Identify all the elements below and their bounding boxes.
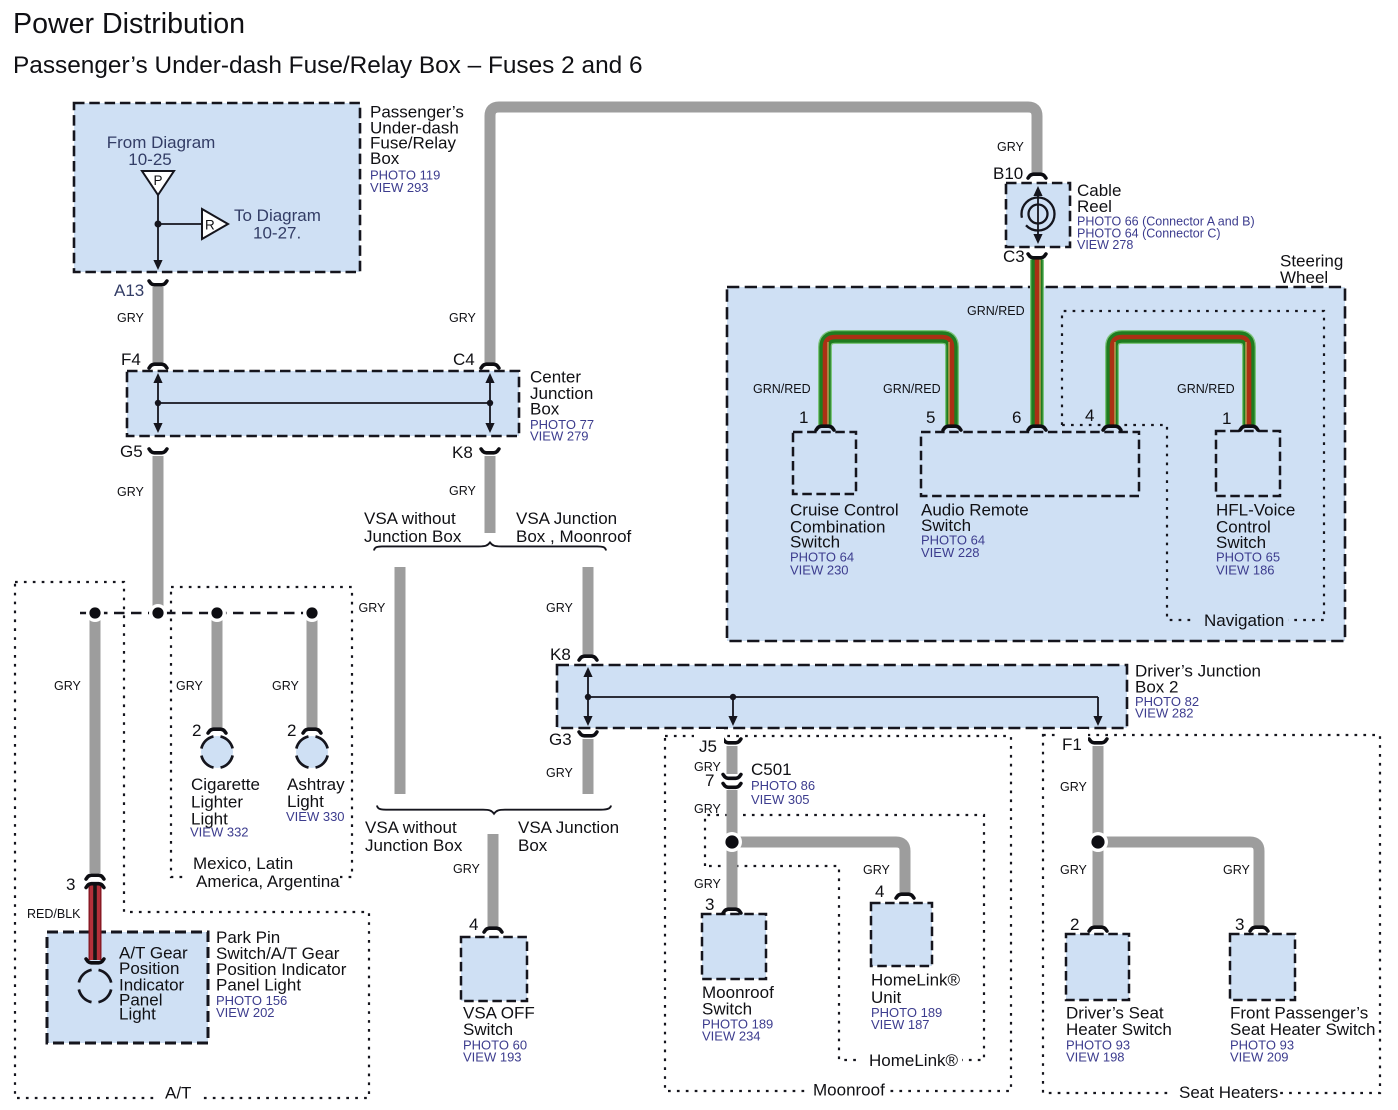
label GRY ashtray wire [272,679,300,693]
wire C3 to pin6 (GRN/RED) [1037,260,1040,426]
svg-text:Cigarette: Cigarette [191,775,260,794]
fuse box internal line and arrow [153,195,202,270]
svg-text:4: 4 [875,882,884,901]
svg-text:Heater Switch: Heater Switch [1066,1020,1172,1039]
svg-text:Box , Moonroof: Box , Moonroof [516,527,632,546]
svg-text:VIEW 293: VIEW 293 [370,180,429,195]
label C501 [751,760,815,807]
connector pin4 VSA OFF [484,928,502,932]
label VSA junction box moonroof (upper) [516,509,632,546]
label GRY passenger seat wire [1223,863,1251,877]
svg-text:3: 3 [66,875,75,894]
label GRY C4 wire [449,311,477,325]
svg-text:2: 2 [287,721,296,740]
moonroof region [665,736,1011,1091]
label VSA OFF switch [463,1004,535,1065]
svg-text:HomeLink®: HomeLink® [871,971,961,990]
label park pin switch/AT gear position indicator panel light [216,928,347,1020]
pin 6 audio [1012,408,1021,427]
svg-text:Junction Box: Junction Box [365,836,463,855]
label GRY K8 wire [449,484,477,498]
connector K8 at DJB2 [579,656,597,660]
triangle P from diagram 10-25 [142,171,174,195]
svg-text:RED/BLK: RED/BLK [27,907,81,921]
label C4 [453,350,475,369]
label GRY J5 wire [694,760,722,774]
svg-text:To Diagram: To Diagram [234,206,321,225]
svg-text:5: 5 [926,408,935,427]
svg-text:7: 7 [705,771,714,790]
svg-text:VSA Junction: VSA Junction [518,818,619,837]
connector pin6 audio [1028,426,1046,430]
svg-text:4: 4 [1085,406,1094,425]
svg-text:VSA Junction: VSA Junction [516,509,617,528]
wire A13 to F4 (GRY) [153,287,164,363]
svg-text:VIEW 230: VIEW 230 [790,563,849,578]
label homelink unit [871,971,961,1033]
svg-text:B10: B10 [993,164,1023,183]
pin 2 ashtray [287,721,296,740]
svg-text:K8: K8 [452,443,473,462]
navigation region [1062,311,1324,620]
label K8 below CJB [452,443,473,462]
svg-text:GRY: GRY [176,679,204,693]
label GRY B10 wire [997,140,1025,154]
svg-text:Power Distribution: Power Distribution [13,8,245,40]
svg-text:GRY: GRY [449,484,477,498]
svg-text:3: 3 [705,895,714,914]
svg-text:HomeLink®: HomeLink® [869,1051,959,1070]
connector 3 inline A/T pair [86,875,104,887]
label GRY left alt wire [359,601,387,615]
svg-text:10-27.: 10-27. [253,224,301,243]
svg-text:VIEW 330: VIEW 330 [286,809,345,824]
connector J5 [723,739,741,743]
connector pin5 audio [943,426,961,430]
connector F1 [1089,739,1107,743]
svg-text:GRY: GRY [694,802,722,816]
svg-text:VIEW 278: VIEW 278 [1077,238,1133,252]
svg-text:G5: G5 [120,442,143,461]
svg-text:3: 3 [1235,915,1244,934]
pin 4 audio [1085,406,1094,425]
label homelink region [862,1050,962,1070]
svg-text:GRN/RED: GRN/RED [1177,382,1235,396]
svg-text:2: 2 [1070,915,1079,934]
svg-text:Light: Light [119,1005,156,1024]
svg-text:10-25: 10-25 [128,150,171,169]
svg-text:Seat Heater Switch: Seat Heater Switch [1230,1020,1376,1039]
label VSA junction box (lower) [518,818,619,855]
label GRN/RED left [753,382,811,396]
svg-text:GRN/RED: GRN/RED [967,304,1025,318]
pin 3 moonroof [705,895,714,914]
svg-text:GRN/RED: GRN/RED [883,382,941,396]
svg-text:Box: Box [370,149,400,168]
label F4 [121,350,141,369]
connector K8 below CJB [481,449,499,453]
svg-text:1: 1 [799,408,808,427]
label G3 [549,730,572,749]
label front passenger's seat heater switch [1230,1004,1376,1065]
label GRY moonroof wire [694,877,722,891]
junction dot moonroof branch [722,832,742,852]
svg-text:F1: F1 [1062,735,1082,754]
mexico latin america argentina region [171,587,352,877]
front passenger's seat heater switch box [1230,934,1295,1000]
svg-text:VIEW 305: VIEW 305 [751,792,810,807]
label moonroof region [806,1081,886,1102]
label A13 [114,281,144,300]
connector G3 [579,732,597,736]
svg-text:J5: J5 [699,737,717,756]
VSA OFF switch box [461,937,527,1001]
label VSA without junction box (upper) [364,509,462,546]
svg-text:VIEW 187: VIEW 187 [871,1017,930,1032]
subtitle [13,52,643,79]
homelink unit box [871,903,932,966]
svg-text:4: 4 [469,915,478,934]
svg-text:Navigation: Navigation [1204,611,1284,630]
label from diagram 10-25 [107,133,216,169]
wire C501 to moonroof switch with homelink branch (GRY) [732,790,905,908]
svg-text:VIEW 234: VIEW 234 [702,1029,761,1044]
svg-text:GRY: GRY [863,863,891,877]
moonroof switch box [702,914,766,979]
connector pin3 moonroof switch [723,909,741,913]
pin 7 C501 [705,771,714,790]
connector pin2 ashtray [303,729,321,733]
svg-text:C4: C4 [453,350,475,369]
svg-text:VIEW 186: VIEW 186 [1216,563,1275,578]
wire pin4 to pin1 HFL (GRN/RED) [1112,337,1249,425]
HFL-voice control switch box [1216,431,1280,496]
pin 3 A/T inline [66,875,75,894]
svg-text:VIEW 202: VIEW 202 [216,1005,275,1020]
wire pin1 to pin5 cruise/audio (GRN/RED) [825,337,952,425]
junction dots on dashed row [86,604,321,622]
wire VSA-without branch (GRY) [395,567,406,794]
triangle R to diagram 10-27 [202,209,228,239]
wire to VSA OFF switch (GRY) [488,834,499,927]
label B10 [993,164,1023,183]
connector pin4 audio [1103,426,1121,430]
wire to cigarette lighter light (GRY) [212,617,223,728]
connector pin2 cigarette [208,729,226,733]
label F1 [1057,729,1088,754]
label to diagram 10-27 [234,206,321,243]
label cigarette lighter light [190,775,260,840]
ashtray light circle [296,736,328,768]
svg-text:GRY: GRY [546,601,574,615]
svg-text:1: 1 [1222,409,1231,428]
label GRY homelink wire [863,863,891,877]
label GRY F1 wire [1060,780,1088,794]
title [13,8,245,40]
passenger under-dash fuse/relay box [74,103,360,272]
wire G3 down (GRY) [583,739,594,794]
label driver's seat heater switch [1066,1004,1172,1065]
seat heaters region [1043,735,1380,1093]
connector G5 [149,449,167,453]
label steering wheel [1280,252,1343,288]
svg-text:G3: G3 [549,730,572,749]
wire VSA junction branch to K8 (GRY) [583,567,594,655]
svg-text:VIEW 282: VIEW 282 [1135,706,1194,721]
label GRN/RED mid [883,382,941,396]
brace VSA alternatives lower [377,806,611,814]
svg-text:America, Argentina: America, Argentina [196,872,340,891]
svg-text:Box: Box [530,400,560,419]
A/T region outline [15,582,369,1098]
label mexico latin america argentina [186,854,340,891]
label cable reel [1077,181,1255,252]
label GRY G5 wire [117,485,145,499]
svg-text:GRY: GRY [449,311,477,325]
label GRY A/T wire [54,679,82,693]
connector pin2 driver seat heater [1089,927,1107,931]
label GRY cigarette wire [176,679,204,693]
svg-text:Wheel: Wheel [1280,268,1328,287]
svg-text:GRY: GRY [453,862,481,876]
label GRY A13 wire [117,311,145,325]
A/T gear position indicator panel light box [47,932,208,1043]
label audio remote switch [921,500,1029,560]
svg-text:Box: Box [518,836,548,855]
svg-text:VIEW 228: VIEW 228 [921,545,980,560]
svg-text:VIEW 193: VIEW 193 [463,1050,522,1065]
connector C4 [481,364,499,368]
svg-text:Moonroof: Moonroof [813,1081,885,1100]
connector B10 [1028,174,1046,178]
label GRY below C501 [694,802,722,816]
pin 5 audio [926,408,935,427]
pin 2 cigarette [192,721,201,740]
svg-text:C3: C3 [1003,247,1025,266]
DJB2 internal arrows [583,667,1102,726]
connector pin1 cruise [816,426,834,430]
svg-text:VSA without: VSA without [364,509,456,528]
pin 4 VSA OFF [469,915,478,934]
label GRY G3 wire [546,766,574,780]
svg-text:Mexico, Latin: Mexico, Latin [193,854,293,873]
svg-text:GRY: GRY [546,766,574,780]
label A/T region [155,1084,201,1106]
connector C3 [1028,254,1046,258]
svg-text:VSA without: VSA without [365,818,457,837]
svg-text:GRY: GRY [272,679,300,693]
svg-text:VIEW 332: VIEW 332 [190,825,249,840]
svg-text:K8: K8 [550,645,571,664]
svg-text:P: P [153,173,162,188]
connector pin1 HFL [1240,426,1258,430]
connector pin4 homelink [896,894,914,898]
steering wheel box [727,287,1345,641]
brace VSA alternatives upper [374,542,606,550]
svg-text:GRY: GRY [359,601,387,615]
center junction box [127,371,519,436]
svg-text:VIEW 198: VIEW 198 [1066,1050,1125,1065]
junction dashed line at A/T row [80,612,312,614]
wire RED/BLK to A/T panel light [89,884,102,960]
label driver's junction box 2 [1135,662,1261,721]
label center junction box [530,368,594,444]
cruise control combination switch box [793,432,856,494]
junction dot seat heater branch [1088,832,1108,852]
wire junction line to A/T (GRY) [90,617,101,873]
wire J5 to C501 (GRY) [727,746,738,774]
label seat heaters region [1172,1083,1278,1103]
svg-text:VIEW 279: VIEW 279 [530,429,589,444]
svg-text:2: 2 [192,721,201,740]
label VSA without junction box (lower) [365,818,463,855]
svg-text:GRY: GRY [997,140,1025,154]
svg-text:Reel: Reel [1077,197,1112,216]
svg-text:GRY: GRY [1223,863,1251,877]
svg-text:GRY: GRY [117,485,145,499]
wire F1 to seat heater switches (GRY) [1098,746,1259,926]
label HFL-voice control switch [1216,501,1295,578]
label moonroof switch [702,983,774,1044]
label passenger's under-dash fuse/relay box [370,103,464,196]
label navigation [1196,608,1288,630]
cable reel box [1006,183,1070,247]
label K8 at DJB2 [550,645,571,664]
svg-text:GRY: GRY [117,311,145,325]
pin 3 passenger seat [1235,915,1244,934]
label G5 [120,442,143,461]
label ashtray light [286,775,345,824]
label RED/BLK [27,907,81,921]
driver's seat heater switch box [1066,934,1129,1000]
pin 1 cruise [799,408,808,427]
svg-text:Panel Light: Panel Light [216,976,301,995]
CJB internal arrows [153,373,494,433]
svg-text:A13: A13 [114,281,144,300]
label GRY right alt wire [546,601,574,615]
label A/T gear position indicator panel light (inside box) [119,944,188,1024]
connector pin3 passenger seat heater [1250,927,1268,931]
svg-text:A/T: A/T [165,1084,191,1103]
pin 4 homelink [875,882,884,901]
label C3 [1003,247,1025,266]
connector C501 inline pair [723,775,741,788]
svg-text:GRY: GRY [1060,780,1088,794]
svg-text:GRN/RED: GRN/RED [753,382,811,396]
svg-text:Passenger’s Under-dash Fuse/Re: Passenger’s Under-dash Fuse/Relay Box – … [13,52,643,79]
svg-text:R: R [205,218,215,233]
svg-text:GRY: GRY [54,679,82,693]
svg-text:GRY: GRY [694,877,722,891]
svg-text:VIEW 209: VIEW 209 [1230,1050,1289,1065]
label cruise control combination switch [790,501,899,578]
svg-text:Junction Box: Junction Box [364,527,462,546]
wire G5 down to junction (GRY) [153,456,164,607]
homelink region [705,815,984,1060]
pin 1 HFL [1222,409,1231,428]
label GRY driver seat wire [1060,863,1088,877]
svg-text:F4: F4 [121,350,141,369]
connector at A/T light circle [86,959,104,963]
pin 2 driver seat [1070,915,1079,934]
svg-text:PHOTO 86: PHOTO 86 [751,778,815,793]
cable reel internal spiral and arrows [1022,186,1055,244]
label GRN/RED top [967,304,1025,318]
svg-text:6: 6 [1012,408,1021,427]
A/T panel light circle [79,970,112,1003]
svg-text:C501: C501 [751,760,792,779]
svg-text:Switch: Switch [463,1020,513,1039]
cigarette lighter light circle [201,736,233,768]
svg-text:GRY: GRY [1060,863,1088,877]
audio remote switch box [921,432,1139,496]
driver's junction box 2 [557,665,1127,728]
wire fuse box to C4/B10 (GRY top run) [490,107,1037,363]
label GRY VSA OFF wire [453,862,481,876]
wire to ashtray light (GRY) [307,617,318,728]
label GRN/RED right [1177,382,1235,396]
connector F4 [149,364,167,368]
connector A13 [149,281,167,285]
label J5 [694,729,724,756]
svg-text:Seat Heaters: Seat Heaters [1179,1083,1278,1102]
wire K8 stub below CJB (GRY) [485,456,496,533]
